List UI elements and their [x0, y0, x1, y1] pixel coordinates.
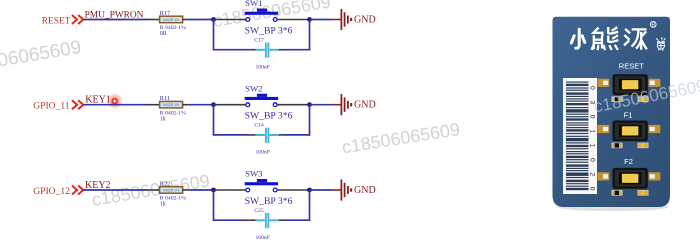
junction node left	[211, 17, 216, 22]
wire	[309, 190, 311, 221]
svg-text:R22: R22	[160, 180, 171, 187]
svg-text:C14: C14	[254, 123, 264, 129]
svg-text:1: 1	[589, 144, 596, 148]
svg-text:100nF: 100nF	[256, 235, 270, 241]
wire	[83, 104, 146, 106]
wire	[310, 104, 332, 106]
svg-text:SW_BP 3*6: SW_BP 3*6	[245, 25, 293, 36]
svg-text:2: 2	[589, 172, 596, 176]
capacitor C25 pin 1	[250, 219, 256, 221]
svg-text:GND: GND	[354, 14, 376, 25]
capacitor C14	[256, 128, 279, 143]
switch SW1 pin 2	[277, 19, 309, 21]
resistor R17 pin 1	[147, 19, 161, 21]
capacitor C14 pin 1	[250, 134, 256, 136]
resistor R22 pin 1	[147, 189, 161, 191]
wire	[83, 189, 146, 191]
capacitor C25 pin 2	[279, 219, 284, 221]
svg-text:RESET: RESET	[619, 62, 644, 71]
svg-text:0R: 0R	[160, 31, 167, 37]
wire	[309, 20, 311, 51]
resistor R17	[160, 16, 183, 23]
junction node left	[211, 102, 216, 107]
board logo character 派	[625, 29, 646, 48]
chip component below F1 (right)	[638, 143, 649, 149]
svg-text:SW_BP 3*6: SW_BP 3*6	[245, 196, 293, 207]
wire	[188, 19, 213, 21]
chip component below RESET (right)	[638, 96, 649, 102]
pushbutton switch SW1	[245, 9, 278, 22]
wire	[310, 19, 332, 21]
board logo character 小	[571, 29, 585, 48]
svg-text:R11: R11	[160, 95, 170, 102]
svg-text:GND: GND	[354, 100, 376, 111]
wire	[284, 134, 310, 136]
board pad left of F2 button	[598, 172, 610, 180]
switch SW2 pin 1	[214, 104, 246, 106]
port chevron RESET	[72, 15, 83, 24]
tactile button F2	[613, 168, 648, 189]
svg-text:F2: F2	[624, 157, 633, 166]
board pad right of F2 button	[649, 172, 661, 180]
junction node right	[307, 188, 312, 193]
resistor R11	[160, 101, 183, 108]
wire	[310, 189, 332, 191]
wire	[213, 134, 250, 136]
switch SW1 pin 1	[214, 19, 246, 21]
wire	[284, 219, 310, 221]
capacitor C17 pin 2	[279, 49, 284, 51]
svg-text:1k: 1k	[160, 116, 166, 122]
svg-text:C17: C17	[254, 37, 264, 43]
junction node left	[211, 188, 216, 193]
barcode label	[563, 78, 597, 194]
junction node right	[307, 102, 312, 107]
board pad right of F1 button	[649, 125, 661, 133]
board pad left of RESET button	[598, 79, 610, 87]
svg-text:C25: C25	[254, 208, 264, 214]
tactile button F1	[613, 121, 648, 142]
pushbutton switch SW2	[245, 94, 278, 107]
ground symbol GND	[331, 94, 352, 115]
svg-text:SW3: SW3	[245, 169, 262, 179]
capacitor C14 pin 2	[279, 134, 284, 136]
svg-text:F1: F1	[624, 111, 633, 120]
ground symbol GND	[331, 179, 352, 200]
wire	[213, 105, 215, 135]
wire	[284, 49, 310, 51]
svg-text:0: 0	[589, 187, 596, 191]
BearPi development board photo	[553, 17, 671, 211]
svg-text:100nF: 100nF	[256, 150, 270, 156]
svg-text:R17: R17	[160, 10, 171, 17]
junction node right	[307, 17, 312, 22]
svg-text:0402R 1%: 0402R 1%	[163, 103, 179, 107]
wire	[213, 190, 215, 220]
resistor R22	[160, 187, 183, 194]
ground symbol GND	[331, 9, 352, 30]
resistor R22 pin 2	[183, 189, 189, 191]
pushbutton switch SW3	[245, 179, 278, 192]
svg-text:R: R	[651, 23, 655, 29]
registered trademark symbol	[650, 22, 656, 29]
port chevron GPIO_11	[72, 100, 83, 109]
wire	[213, 20, 215, 50]
switch SW3 pin 2	[277, 189, 309, 191]
chip component below RESET (left)	[612, 96, 623, 102]
svg-text:0: 0	[589, 86, 596, 90]
svg-text:RESET: RESET	[42, 17, 71, 27]
svg-text:SW1: SW1	[245, 0, 262, 8]
resistor R11 pin 1	[147, 104, 161, 106]
chip component below F2 (right)	[638, 190, 649, 196]
resistor R17 pin 2	[183, 19, 189, 21]
svg-text:0: 0	[589, 158, 596, 162]
wire	[188, 104, 213, 106]
wire	[309, 105, 311, 136]
tactile button RESET	[613, 74, 648, 95]
svg-text:1: 1	[589, 129, 596, 133]
svg-text:GPIO_12: GPIO_12	[33, 186, 70, 197]
svg-text:100nF: 100nF	[256, 64, 270, 70]
cursor click highlight	[106, 93, 123, 110]
switch SW2 pin 2	[277, 104, 309, 106]
chip component below F1 (left)	[612, 143, 623, 149]
board pad left of F1 button	[598, 125, 610, 133]
svg-text:SW_BP 3*6: SW_BP 3*6	[245, 111, 293, 122]
wire	[213, 219, 250, 221]
svg-text:0402R 1%: 0402R 1%	[163, 188, 179, 192]
svg-text:GND: GND	[354, 185, 376, 196]
wire	[188, 189, 213, 191]
svg-text:0402R 1%: 0402R 1%	[163, 18, 179, 22]
chip component below F2 (left)	[612, 190, 623, 196]
svg-text:1k: 1k	[160, 202, 166, 208]
capacitor C25	[256, 213, 279, 228]
svg-text:GPIO_11: GPIO_11	[33, 101, 70, 112]
capacitor C17 pin 1	[250, 49, 256, 51]
switch SW3 pin 1	[214, 189, 246, 191]
wire	[213, 49, 250, 51]
svg-text:0: 0	[589, 115, 596, 119]
resistor R11 pin 2	[183, 104, 189, 106]
bear mascot icon	[656, 37, 665, 51]
capacitor C17	[256, 43, 279, 58]
board logo character 熊	[592, 28, 617, 49]
port chevron GPIO_12	[72, 186, 83, 195]
svg-text:SW2: SW2	[245, 83, 262, 93]
board pad right of RESET button	[649, 79, 661, 87]
wire	[83, 19, 146, 21]
